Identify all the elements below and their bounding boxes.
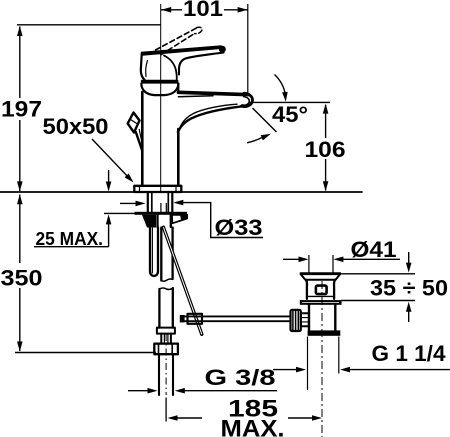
counter underside line [104, 212, 144, 214]
dimension 25 MAX down arrowhead [106, 182, 112, 192]
101 right extension line [247, 4, 249, 97]
faucet body right edge [177, 129, 180, 186]
svg-text:G 1 1/4: G 1 1/4 [372, 341, 447, 366]
35-50 upper arrowhead [406, 263, 412, 273]
bottom reference line (350 end) [15, 352, 156, 354]
pop-up rod diagonal [163, 227, 201, 334]
pop-up knob mid line [131, 120, 137, 124]
knob ridges [292, 310, 294, 330]
svg-text:Ø33: Ø33 [215, 215, 263, 240]
dimension 197 up arrowhead [17, 26, 23, 36]
spout tip curl outer [241, 93, 252, 106]
lever inner curve front [146, 61, 148, 77]
drain flange top thick edge [300, 272, 341, 275]
diameter 41 left arrowhead [299, 257, 309, 263]
label 25 MAX underline [34, 246, 109, 248]
shank center tube lines [160, 204, 162, 212]
handle bottom band [141, 80, 179, 84]
leader 50x50 arrowhead [125, 174, 134, 183]
G 1 1/4 dim line left [273, 369, 298, 371]
lever raised dashed line lower [161, 34, 195, 55]
svg-text:101: 101 [183, 0, 223, 21]
svg-text:G 3/8: G 3/8 [205, 365, 276, 390]
spout underside inner [181, 104, 237, 126]
dimension 101 line left segment [161, 9, 182, 11]
supply tube centerline [165, 334, 167, 395]
dimension 197 vertical line lower segment [19, 120, 21, 191]
45 degree upper arc arrowhead [282, 92, 288, 102]
drain body [306, 280, 335, 299]
mounting nut left wing [142, 215, 156, 228]
supply tail tube [158, 354, 160, 395]
union collar [157, 328, 175, 334]
cartridge cap under lever [141, 84, 178, 96]
mounting nut top bar [135, 212, 188, 215]
lever handle top edge [141, 45, 222, 56]
dimension 350 up arrowhead [17, 194, 23, 204]
shank outer right [171, 193, 173, 212]
drain square hole [316, 286, 327, 294]
diameter 33 left arrow line [120, 202, 137, 204]
horizontal linkage rod bottom [184, 320, 290, 322]
svg-text:197: 197 [1, 97, 42, 122]
drain flange extension left [308, 255, 310, 273]
horizontal linkage rod top [184, 315, 290, 317]
dimension 350 vertical line lower segment [19, 288, 21, 351]
washer white inner line [302, 301, 339, 303]
45 degree upper arc [275, 75, 286, 96]
shank inner left [151, 193, 153, 212]
mounting nut right wing black wedge [180, 215, 187, 220]
diameter 33 right arrowhead [173, 200, 183, 206]
dimension 350 down arrowhead [17, 342, 23, 352]
dimension 101 right arrowhead [238, 7, 248, 13]
body right edge upper segment [177, 84, 179, 94]
spout underside outer [178, 106, 241, 132]
diameter 41 dim line left [283, 258, 301, 260]
185 dim line left with arrowhead [176, 417, 202, 419]
diameter 41 dim line right [341, 258, 400, 260]
dimension 25 MAX lower arrow line [108, 219, 110, 247]
spout tip curl inner [242, 97, 249, 106]
drain flange [301, 274, 341, 280]
lever handle underside [179, 53, 224, 75]
narrow connector [160, 334, 162, 344]
dimension 197 down arrowhead [17, 181, 23, 191]
pop-up knob at back [128, 113, 140, 133]
supply pipe segment 1 [160, 228, 162, 281]
pop-up rod thin edge [139, 130, 143, 148]
35-50 upper arrow line [408, 252, 410, 264]
185 dim line right with arrowhead [288, 417, 314, 419]
35-50 lower arrowhead [406, 302, 412, 312]
G 3/8 left arrowhead [148, 388, 158, 394]
centerline of faucet (101 left extension) [160, 4, 162, 192]
diameter 33 left arrowhead [136, 201, 146, 207]
threaded stud below nut [150, 228, 158, 276]
knurled knob [291, 310, 301, 331]
dimension 197 vertical line upper segment [19, 27, 21, 99]
mounting nut center pipe lines [156, 215, 158, 227]
45 degree lower arc arrowhead [261, 134, 271, 141]
spout top inner line [178, 96, 213, 97]
supply hex nut [154, 344, 178, 355]
dimension 101 left arrowhead [161, 7, 171, 13]
spout outlet level line [249, 101, 331, 103]
dimension 106 up arrowhead [323, 104, 329, 114]
supply centerline extension [165, 398, 167, 422]
base flange lip marks [139, 186, 141, 192]
G 3/8 dim line left [128, 390, 150, 392]
svg-text:350: 350 [1, 266, 43, 291]
lever handle tip [219, 46, 226, 53]
shank outer left [147, 193, 149, 212]
svg-text:35 ÷ 50: 35 ÷ 50 [370, 276, 448, 301]
stud inner line [151, 228, 153, 273]
supply pipe segment 2 [158, 289, 160, 328]
diameter 41 right arrowhead [333, 257, 343, 263]
svg-text:106: 106 [305, 137, 346, 162]
drain washer (black) [300, 300, 342, 305]
pipe break lower edge [161, 279, 172, 281]
faucet base flange [134, 186, 181, 192]
lever raised dashed tip cap [195, 27, 202, 33]
G 3/8 dim line right (underline) [182, 390, 277, 392]
hex nut facets [158, 344, 160, 354]
linkage rod end cap [180, 315, 185, 322]
svg-text:Ø41: Ø41 [351, 237, 397, 262]
drain flange extension right [332, 255, 334, 273]
svg-text:25 MAX.: 25 MAX. [36, 229, 104, 249]
svg-text:45°: 45° [272, 102, 308, 127]
svg-text:MAX.: MAX. [221, 416, 285, 437]
counter top line [0, 191, 363, 193]
lever inner curve big [164, 56, 177, 82]
lever handle front face [141, 53, 145, 80]
knob nut [301, 313, 309, 326]
45 degree lower arc [247, 137, 264, 143]
pop-up rod diagonal inner white [163, 227, 201, 334]
G 1 1/4 extension right [338, 337, 340, 374]
pop-up rod into body [136, 132, 142, 150]
leader line 50x50 [92, 139, 131, 180]
drain centerline [321, 281, 323, 437]
35-50 lower level line [341, 300, 415, 302]
35-50 lower arrow line [408, 310, 410, 322]
top reference line (max height level) [17, 24, 161, 26]
G 1 1/4 right arrowhead [340, 367, 350, 373]
35-50 upper level line [341, 273, 415, 275]
dimension 101 line right segment [224, 9, 248, 11]
G 1 1/4 extension left [307, 337, 309, 391]
dimension 25 MAX upper arrow line [108, 170, 110, 188]
diameter 33 leader line [181, 203, 263, 238]
dimension 350 vertical line upper segment [19, 195, 21, 264]
dimension 25 MAX up arrowhead [106, 214, 112, 224]
drain upper tube [308, 305, 310, 331]
dimension 106 vertical upper segment [325, 105, 327, 138]
G 1 1/4 left arrowhead [296, 367, 306, 373]
linkage clamp [188, 314, 203, 324]
svg-text:50x50: 50x50 [43, 114, 109, 139]
drain body band line [307, 295, 334, 297]
lever raised dashed line upper [156, 28, 197, 50]
spout top edge [178, 92, 245, 94]
dimension 106 down arrowhead [323, 181, 329, 191]
drain tube black band [308, 330, 341, 335]
shank inner right [167, 193, 169, 212]
mounting nut right wing [172, 215, 187, 224]
pipe break upper edge [159, 288, 172, 290]
G 1 1/4 dim line right [347, 369, 450, 371]
dimension 106 vertical lower segment [325, 159, 327, 191]
G 3/8 right arrowhead [175, 388, 185, 394]
45 degree ray [253, 108, 277, 132]
faucet body left edge [141, 92, 144, 186]
